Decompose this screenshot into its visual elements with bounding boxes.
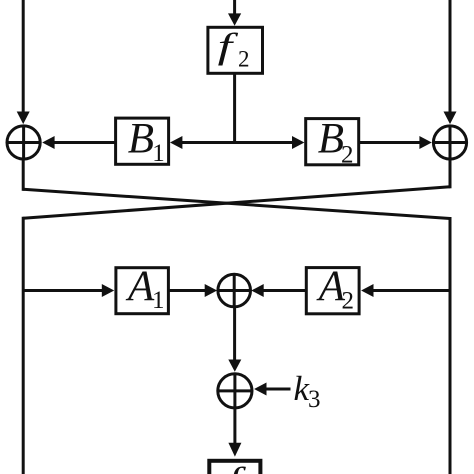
wire top center into f2 <box>233 0 236 15</box>
wire B2 to right xor <box>360 141 422 144</box>
label f2 <box>218 26 250 72</box>
arrowhead into center xor left <box>205 284 217 297</box>
svg-text:1: 1 <box>152 287 165 314</box>
wire below right xor <box>449 159 452 188</box>
box B2 <box>306 119 359 165</box>
wire A1 to center xor <box>168 289 207 292</box>
wire f2 output down <box>233 73 236 144</box>
arrowhead into B1 <box>170 136 182 149</box>
svg-text:A: A <box>125 263 155 310</box>
arrowhead into center xor right <box>251 284 263 297</box>
box f3 bottom partial <box>209 461 260 474</box>
xor X4 k3 <box>218 374 252 408</box>
xor X1 left <box>7 126 40 159</box>
svg-text:2: 2 <box>341 142 354 169</box>
xor X2 right <box>433 126 466 159</box>
wire cross diagonal left-to-right <box>23 189 450 218</box>
wire k3 xor down <box>233 408 236 444</box>
svg-text:3: 3 <box>308 386 321 413</box>
label B1 <box>128 115 165 167</box>
label k3 <box>294 369 321 413</box>
wire B1 to left xor <box>52 141 115 144</box>
box A2 <box>306 268 359 314</box>
svg-text:2: 2 <box>342 288 355 315</box>
wire horizontal split to B1 and B2 <box>178 141 295 144</box>
arrowhead into f3 <box>228 443 241 457</box>
xor X3 center <box>218 274 251 307</box>
arrowhead into left xor <box>42 136 54 149</box>
svg-text:1: 1 <box>152 140 165 167</box>
wire right vertical lower <box>449 217 452 474</box>
arrowhead into right xor <box>419 136 431 149</box>
wire A2 to center xor <box>262 289 305 292</box>
wire top left vertical <box>22 0 25 113</box>
wire below left xor <box>22 159 25 191</box>
arrowhead into B2 <box>292 136 304 149</box>
wire center xor down <box>233 307 236 361</box>
wire left to A1 <box>23 289 104 292</box>
wire cross diagonal right-to-left <box>23 187 450 218</box>
box B1 <box>116 118 169 164</box>
label B2 <box>318 116 354 169</box>
arrowhead k3 into xor <box>254 383 266 396</box>
arrowhead into A2 <box>361 284 373 297</box>
wire k3 into xor <box>262 388 291 391</box>
arrowhead into k3 xor top <box>228 360 241 372</box>
box A1 <box>116 268 168 314</box>
svg-text:2: 2 <box>238 47 250 72</box>
arrowhead into right xor top <box>444 112 457 125</box>
arrowhead into f2 <box>228 13 241 25</box>
wire top right vertical <box>449 0 452 113</box>
wire right to A2 <box>371 289 450 292</box>
wire left vertical lower <box>22 217 25 474</box>
arrowhead into left xor top <box>17 112 30 125</box>
box f2 <box>208 27 263 73</box>
svg-text:B: B <box>128 115 154 162</box>
label A1 <box>125 263 165 314</box>
label A2 <box>316 263 354 315</box>
arrowhead into A1 <box>102 284 114 297</box>
